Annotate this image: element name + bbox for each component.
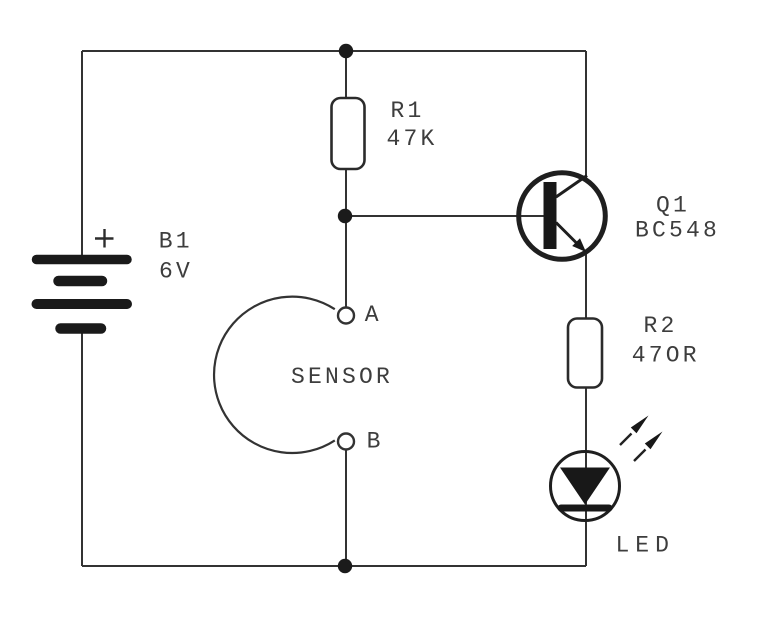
svg-text:B: B — [367, 429, 384, 455]
svg-text:Q1: Q1 — [656, 192, 690, 218]
svg-text:R1: R1 — [391, 98, 425, 124]
svg-text:47K: 47K — [387, 126, 438, 152]
svg-text:R2: R2 — [644, 313, 678, 339]
svg-text:BC548: BC548 — [635, 218, 720, 244]
svg-text:A: A — [365, 302, 382, 328]
svg-text:B1: B1 — [159, 229, 193, 255]
svg-text:6V: 6V — [159, 258, 193, 284]
svg-text:SENSOR: SENSOR — [291, 364, 393, 390]
svg-text:47OR: 47OR — [632, 342, 700, 368]
svg-text:LED: LED — [616, 533, 675, 559]
